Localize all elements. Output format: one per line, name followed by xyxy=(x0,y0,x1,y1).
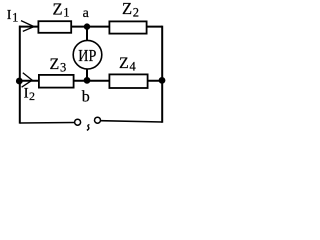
AC source tilde mark xyxy=(87,125,90,131)
current arrow I2 xyxy=(22,73,33,87)
wire bottom right segment xyxy=(101,121,162,122)
terminal right xyxy=(95,117,101,123)
svg-text:b: b xyxy=(82,89,90,106)
wire top horizontal xyxy=(19,26,162,28)
resistor Z4 xyxy=(109,74,147,88)
wire bottom left segment xyxy=(20,122,75,125)
svg-text:I2: I2 xyxy=(24,86,35,103)
wire left vertical xyxy=(19,26,21,124)
node a junction dot xyxy=(84,23,90,29)
junction dot right xyxy=(159,77,166,84)
svg-text:ИР: ИР xyxy=(78,46,96,65)
node b junction dot xyxy=(84,77,91,84)
resistor Z1 xyxy=(38,21,71,33)
indicator U1 (null detector) circle xyxy=(73,40,102,69)
svg-text:I1: I1 xyxy=(7,8,19,24)
wire node a to indicator xyxy=(86,27,88,41)
current arrow I1 xyxy=(21,21,34,32)
wire middle row horizontal xyxy=(19,80,162,82)
wire indicator to node b xyxy=(86,69,88,81)
junction dot left xyxy=(16,78,23,85)
svg-text:a: a xyxy=(83,6,90,21)
wire right vertical xyxy=(161,26,163,123)
resistor Z2 xyxy=(109,21,146,33)
terminal left xyxy=(75,119,81,125)
resistor Z3 xyxy=(39,75,74,88)
